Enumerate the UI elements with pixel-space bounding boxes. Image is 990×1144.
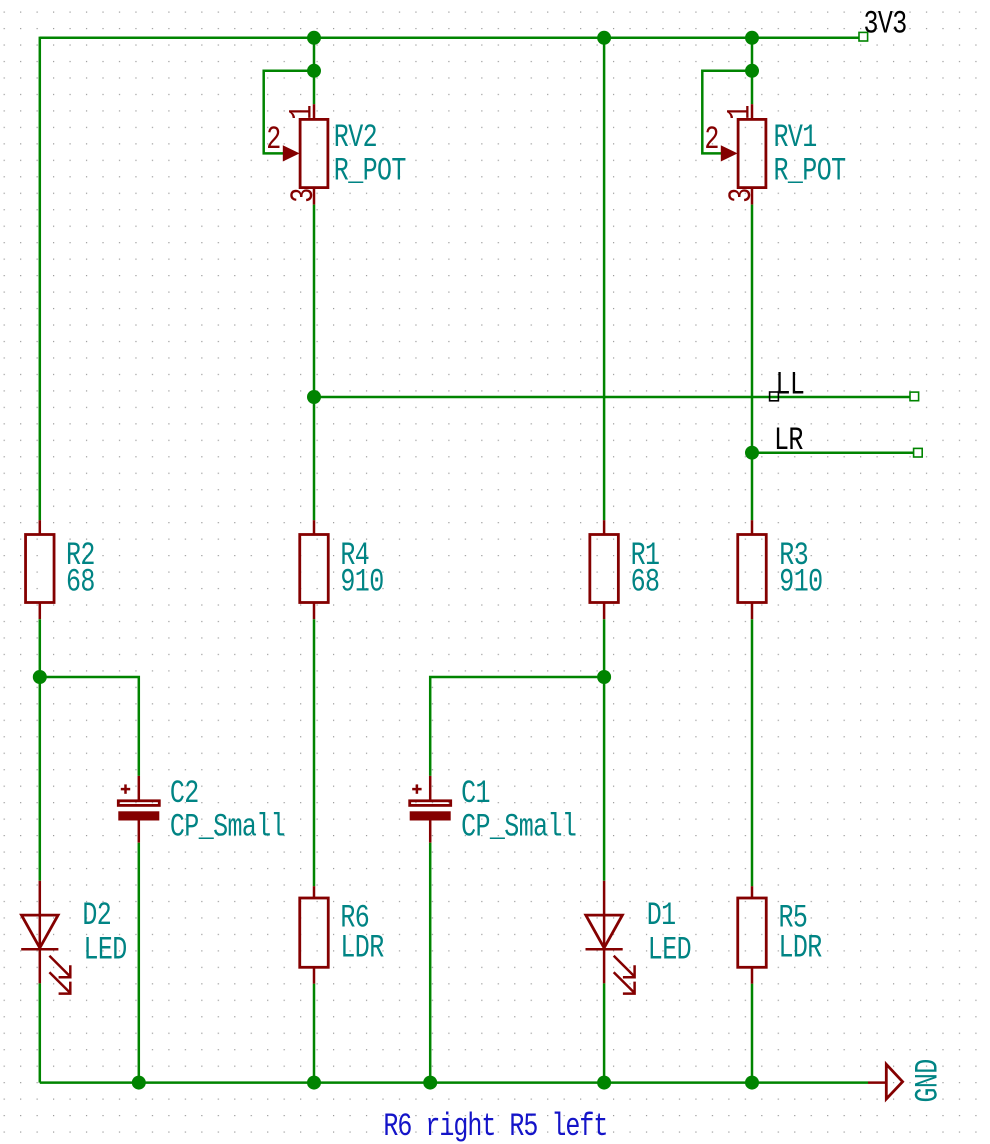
svg-text:LED: LED [84, 931, 127, 968]
svg-text:3V3: 3V3 [864, 5, 907, 42]
junction ground B [307, 1076, 321, 1090]
resistor R1 pins [603, 520, 606, 534]
wire column D bottom [603, 983, 606, 1082]
junction ground F [132, 1076, 146, 1090]
wire column E middle [751, 205, 754, 521]
svg-text:R_POT: R_POT [774, 153, 846, 190]
svg-text:LR: LR [774, 422, 803, 459]
junction RV2 loop [307, 64, 321, 78]
power symbol GND pin [868, 1081, 886, 1084]
wire column B lower [313, 619, 316, 886]
svg-text:D2: D2 [82, 897, 111, 934]
resistor R6 [300, 898, 329, 967]
potentiometer RV1 body [738, 119, 766, 187]
label anchor square LL [770, 392, 779, 401]
svg-text:D1: D1 [647, 897, 676, 934]
resistor R4 [300, 535, 329, 603]
junction top rail D [597, 31, 611, 45]
power symbol GND triangle [886, 1064, 902, 1099]
LED D2 anode pin [39, 881, 42, 915]
svg-text:CP_Small: CP_Small [461, 809, 576, 846]
capacitor C2 plus sign [121, 788, 130, 791]
svg-text:68: 68 [66, 563, 95, 600]
junction ground D [597, 1076, 611, 1090]
junction RV1 loop [745, 64, 759, 78]
junction LR [745, 446, 759, 460]
svg-text:RV2: RV2 [334, 119, 377, 156]
svg-text:3: 3 [285, 188, 322, 202]
LED D2 cathode pin [39, 915, 42, 983]
wire column E top [751, 38, 754, 104]
svg-text:R6 right R5 left: R6 right R5 left [383, 1108, 607, 1144]
potentiometer RV1 wiper arrow [721, 145, 738, 161]
potentiometer RV1 pin 3 [751, 188, 754, 205]
capacitor C1 bottom pin [429, 821, 432, 843]
svg-text:C1: C1 [461, 775, 490, 812]
svg-text:LDR: LDR [340, 930, 383, 967]
unconnected end square LR [914, 448, 923, 457]
resistor R5 pins [751, 886, 754, 898]
wire C2 branch horizontal [40, 677, 139, 776]
junction A-677 [33, 670, 47, 684]
svg-text:LDR: LDR [779, 930, 822, 967]
svg-text:LED: LED [648, 931, 691, 968]
potentiometer RV2 pin 3 [313, 188, 316, 205]
capacitor C1 bottom plate [410, 811, 451, 820]
wire column B bottom [313, 984, 316, 1083]
junction ground C [423, 1076, 437, 1090]
LED D2 arrow 1 [49, 956, 70, 977]
svg-text:3: 3 [723, 188, 760, 202]
junction ground E [745, 1076, 759, 1090]
svg-text:2: 2 [704, 121, 718, 158]
LED D1 arrow 1 [614, 956, 635, 977]
wire LR [752, 451, 914, 454]
wire left column A top [39, 37, 42, 521]
wire column E lower [751, 619, 754, 886]
resistor R6 pins [313, 886, 316, 898]
capacitor C2 bottom plate [118, 811, 159, 820]
potentiometer RV2 body [300, 119, 328, 187]
LED D2 cathode bar [21, 948, 58, 951]
wire 3V3 top rail [40, 37, 859, 40]
svg-text:CP_Small: CP_Small [170, 809, 285, 846]
resistor R2 [26, 535, 55, 603]
wire ground rail [40, 1081, 868, 1084]
capacitor C2 top plate [118, 801, 159, 806]
svg-text:1: 1 [721, 105, 758, 119]
LED D1 triangle [586, 915, 623, 948]
svg-text:2: 2 [266, 121, 280, 158]
unconnected end square 3V3 [859, 32, 868, 41]
junction LL [307, 390, 321, 404]
LED D2 arrow 2 [49, 972, 70, 993]
svg-text:910: 910 [340, 563, 383, 600]
junction D-677 [597, 670, 611, 684]
wire C1 to ground rail [429, 843, 432, 1083]
svg-text:LL: LL [776, 367, 805, 404]
junction top rail B [307, 31, 321, 45]
LED D1 anode pin [603, 881, 606, 915]
wire LL [314, 396, 910, 399]
unconnected end square LL [910, 392, 919, 401]
resistor R1 [590, 535, 619, 603]
svg-text:R_POT: R_POT [334, 153, 406, 190]
LED D1 cathode pin [603, 915, 606, 983]
wire RV2 wiper loop [264, 71, 314, 154]
resistor R2 pins [39, 520, 42, 534]
svg-text:68: 68 [631, 563, 660, 600]
LED D2 triangle [22, 915, 59, 948]
potentiometer RV1 pin 1 [751, 104, 754, 119]
junction top rail E [745, 31, 759, 45]
wire C2 to ground rail [138, 843, 141, 1083]
wire column A middle [39, 619, 42, 881]
capacitor C2 top pin [138, 776, 141, 800]
svg-text:C2: C2 [170, 775, 199, 812]
capacitor C1 top pin [429, 776, 432, 800]
capacitor C1 top plate [410, 801, 451, 806]
svg-text:1: 1 [283, 105, 320, 119]
wire RV1 wiper loop [702, 71, 752, 154]
wire column D top [603, 38, 606, 520]
potentiometer RV2 pin 1 [313, 104, 316, 119]
wire column B middle [313, 205, 316, 521]
potentiometer RV2 wiper arrow [283, 145, 300, 161]
LED D1 arrow 2 [614, 972, 635, 993]
wire column E bottom [751, 984, 754, 1083]
resistor R3 [738, 535, 767, 603]
LED D1 cathode bar [586, 948, 623, 951]
svg-text:RV1: RV1 [774, 119, 817, 156]
wire column D middle [603, 619, 606, 881]
svg-text:GND: GND [910, 1059, 947, 1102]
resistor R5 [738, 898, 767, 967]
wire C1 branch horizontal [430, 677, 604, 776]
capacitor C1 plus sign [412, 788, 421, 791]
wire column A bottom [39, 983, 42, 1082]
resistor R3 pins [751, 520, 754, 534]
svg-text:910: 910 [779, 563, 822, 600]
capacitor C2 bottom pin [138, 821, 141, 843]
resistor R4 pins [313, 520, 316, 534]
wire column B top [313, 38, 316, 104]
